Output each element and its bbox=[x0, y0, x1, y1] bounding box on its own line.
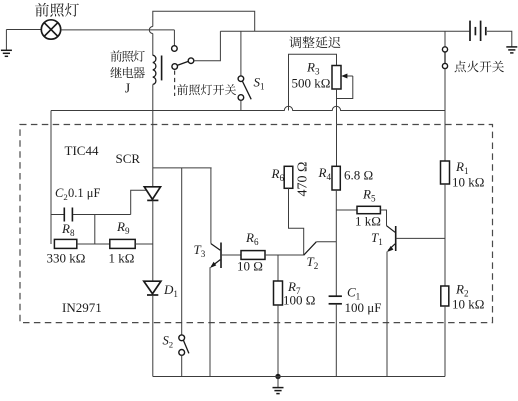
label 继电器 (relay line2) bbox=[110, 67, 144, 78]
wire SCR anode line bbox=[152, 111, 154, 187]
svg-text:500 kΩ: 500 kΩ bbox=[292, 76, 331, 91]
switch S2 contact top bbox=[179, 335, 185, 341]
wire R8 to R9 bbox=[77, 243, 110, 245]
capacitor C1 bbox=[329, 296, 342, 304]
wire relay coil to bus bbox=[152, 84, 154, 110]
resistor R3 (potentiometer body) bbox=[332, 66, 341, 90]
wire C1 to bottom rail bbox=[335, 304, 337, 377]
wire to C2 bbox=[51, 214, 64, 216]
wire gate riser bbox=[131, 190, 147, 214]
resistor R2 bbox=[441, 286, 449, 306]
wire lamp to relay contact riser bbox=[61, 29, 175, 31]
relay contact top bbox=[172, 46, 178, 52]
resistor R4 bbox=[332, 166, 340, 190]
relay core bar bbox=[161, 56, 163, 81]
junction dot (ground node) bbox=[275, 374, 280, 379]
wire top loop (relay coil to supply) bbox=[152, 34, 154, 56]
svg-text:0.1 μF: 0.1 μF bbox=[68, 186, 100, 200]
wire branch to S2 and T3 bbox=[153, 167, 212, 169]
ignition switch contact bottom bbox=[442, 63, 447, 68]
wire T1 emitter to bottom rail bbox=[386, 252, 388, 377]
switch S1 contact top bbox=[238, 76, 244, 82]
wire R9 to cathode line bbox=[135, 243, 153, 245]
wire R1 to R2 bbox=[444, 184, 446, 286]
svg-text:100 Ω: 100 Ω bbox=[283, 293, 315, 308]
relay coil J bbox=[153, 55, 156, 84]
wire ground to lamp bbox=[6, 29, 41, 31]
wire C2 to SCR gate branch bbox=[73, 214, 131, 216]
resistor R8 bbox=[54, 239, 76, 248]
svg-text:6.8 Ω: 6.8 Ω bbox=[344, 168, 373, 183]
switch S1 blade bbox=[242, 81, 251, 99]
diode D1 (IN2971) bbox=[144, 281, 161, 295]
label 前照灯开关 (headlamp switch) bbox=[177, 84, 236, 95]
svg-text:IN2971: IN2971 bbox=[62, 300, 102, 315]
svg-text:1 kΩ: 1 kΩ bbox=[355, 214, 381, 229]
wire R5 to T1 collector bbox=[380, 210, 386, 226]
resistor R6 bbox=[241, 251, 265, 260]
wire bus to R1 bbox=[444, 111, 446, 162]
svg-text:330 kΩ: 330 kΩ bbox=[47, 251, 86, 266]
label 调整延迟 (adjust delay) bbox=[289, 36, 340, 48]
wire relay contact to supply line bbox=[194, 31, 221, 60]
svg-text:J: J bbox=[125, 82, 131, 97]
relay contact blade bbox=[177, 61, 188, 65]
svg-text:TIC44: TIC44 bbox=[65, 143, 99, 158]
wire R6 to T2 collector bbox=[289, 188, 304, 255]
relay linkage (dashed) bbox=[174, 71, 176, 97]
wire R6 to T2 base bbox=[265, 254, 304, 256]
wire ignition switch to bus bbox=[444, 69, 446, 111]
wire T3 base to R6 bbox=[221, 254, 241, 256]
wire R3 bottom to R4 bbox=[336, 89, 338, 166]
svg-text:100 μF: 100 μF bbox=[345, 300, 382, 315]
wire R4 line to R5 bbox=[336, 209, 357, 211]
wire S2 to bottom rail bbox=[181, 355, 183, 376]
wire R2 to bottom rail bbox=[444, 306, 446, 377]
wire R7 to bottom rail bbox=[277, 305, 279, 377]
resistor R9 bbox=[110, 239, 135, 248]
wire D1 to bottom rail bbox=[152, 295, 154, 377]
wire bus down to R8 bbox=[50, 111, 52, 245]
relay contact moving bbox=[172, 64, 178, 70]
ground (module common) bbox=[273, 377, 284, 394]
wire node down to R7 bbox=[277, 255, 279, 281]
wire ignition riser bbox=[444, 31, 446, 47]
svg-text:10 kΩ: 10 kΩ bbox=[452, 297, 484, 312]
ignition switch blade bbox=[444, 52, 446, 63]
R3 wiper arrow bbox=[337, 76, 353, 99]
svg-text:470 Ω: 470 Ω bbox=[296, 162, 311, 197]
wire SCR cathode down to D1 bbox=[152, 200, 154, 281]
transistor T3 bbox=[211, 243, 221, 269]
wire T3 collector bbox=[210, 168, 212, 244]
transistor T2 bbox=[304, 242, 317, 255]
SCR thyristor (TIC44) bbox=[144, 187, 160, 201]
wire S2 riser bbox=[181, 168, 183, 335]
label 点火开关 (ignition switch) bbox=[455, 61, 504, 73]
resistor R6 470 Ω bbox=[284, 166, 293, 188]
wire R4 down through R5/T2/C1 nodes bbox=[335, 190, 337, 296]
wire T1 base to divider bbox=[396, 237, 445, 239]
transistor T1 bbox=[387, 226, 396, 251]
ground (battery) bbox=[506, 47, 517, 53]
resistor R5 bbox=[357, 206, 380, 213]
switch S2 blade bbox=[183, 340, 189, 353]
svg-text:10 Ω: 10 Ω bbox=[237, 259, 263, 274]
label 前照灯 (headlamp) bbox=[35, 3, 79, 17]
wire supply line to battery bbox=[220, 30, 469, 32]
module enclosure (dashed box) bbox=[20, 125, 493, 323]
wire S1 riser bbox=[240, 31, 242, 76]
resistor R7 bbox=[274, 281, 283, 305]
wire bottom rail bbox=[153, 376, 445, 378]
wire to relay contact (from lamp wire) bbox=[173, 30, 175, 46]
switch S2 contact bottom bbox=[179, 350, 185, 356]
battery GB bbox=[470, 21, 486, 41]
label 前照灯 (relay line1) bbox=[110, 50, 144, 61]
wire battery to ground bbox=[487, 31, 512, 47]
svg-text:1 kΩ: 1 kΩ bbox=[109, 251, 135, 266]
lamp EL (headlamp) bbox=[41, 20, 60, 39]
svg-text:SCR: SCR bbox=[116, 151, 141, 166]
ground (headlamp return) bbox=[1, 30, 12, 57]
wire R3 loop top bbox=[289, 54, 337, 110]
wire main bus (supply rail) with hops bbox=[51, 106, 445, 110]
svg-text:10 kΩ: 10 kΩ bbox=[452, 175, 484, 190]
ignition switch contact top bbox=[442, 47, 447, 52]
wire branch down to R8-R9 node bbox=[94, 215, 96, 245]
wire T3 emitter to bottom rail bbox=[209, 267, 211, 376]
resistor R1 bbox=[441, 161, 450, 184]
wire hop: coil line over lamp wire bbox=[149, 27, 153, 34]
capacitor C2 bbox=[64, 208, 72, 222]
wire S1 to bus bbox=[240, 100, 242, 110]
wire T2 emitter to C1 line bbox=[316, 241, 336, 243]
relay contact right bbox=[188, 58, 194, 64]
switch S1 contact bottom bbox=[238, 95, 244, 101]
